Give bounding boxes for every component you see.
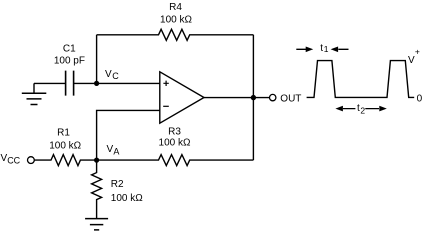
svg-text:R2: R2 [111, 179, 124, 190]
svg-text:A: A [113, 147, 119, 157]
svg-text:R4: R4 [169, 2, 182, 13]
svg-text:C: C [112, 71, 119, 81]
svg-text:CC: CC [7, 156, 20, 166]
svg-text:+: + [415, 46, 420, 56]
svg-text:2: 2 [360, 105, 365, 115]
svg-text:1: 1 [324, 44, 329, 54]
svg-text:100 pF: 100 pF [54, 56, 85, 67]
svg-text:100 kΩ: 100 kΩ [111, 193, 143, 204]
svg-text:OUT: OUT [280, 94, 301, 105]
svg-text:0: 0 [417, 94, 423, 105]
svg-text:100 kΩ: 100 kΩ [160, 14, 192, 25]
svg-text:100 kΩ: 100 kΩ [49, 140, 81, 151]
svg-text:100 kΩ: 100 kΩ [159, 138, 191, 149]
svg-text:C1: C1 [63, 43, 76, 54]
svg-text:V: V [408, 55, 415, 66]
svg-text:R3: R3 [168, 126, 181, 137]
svg-text:R1: R1 [57, 127, 70, 138]
svg-text:V: V [105, 69, 112, 80]
